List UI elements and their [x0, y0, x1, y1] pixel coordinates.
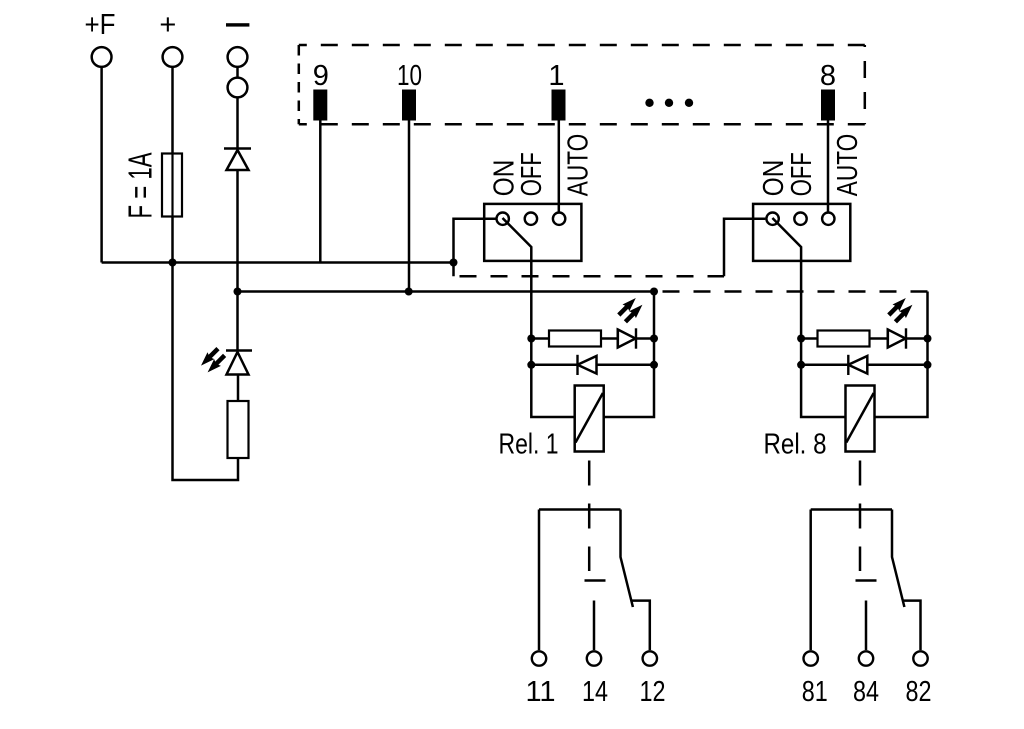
svg-text:1: 1	[548, 60, 564, 92]
rel1 contact 12 hook	[632, 601, 650, 651]
svg-text:Rel. 1: Rel. 1	[499, 429, 559, 461]
wire fuse to rail	[171, 217, 174, 263]
S1 OFF contact	[525, 213, 537, 225]
terminal − upper	[228, 47, 248, 67]
junction terminal10 rail2	[405, 288, 413, 296]
svg-text:10: 10	[397, 60, 422, 92]
terminal 82	[913, 651, 927, 665]
LED V2 arrows	[201, 347, 226, 372]
junction rail1 switch branch	[450, 259, 458, 267]
wire LED to resistor R1	[237, 375, 240, 402]
rel8 contact 81 wire	[809, 510, 812, 651]
rel1 contact 14 wire	[593, 601, 596, 651]
rel8 armature bar	[856, 579, 877, 582]
wire diode to rail2	[236, 170, 239, 292]
resistor R3	[801, 337, 817, 340]
top dashed connector box	[299, 44, 865, 47]
terminal − lower	[228, 78, 248, 98]
relay coil K8	[846, 386, 875, 452]
svg-text:11: 11	[525, 676, 555, 708]
wire 10 to rail2	[408, 121, 411, 292]
LED V5 arrows	[887, 298, 912, 323]
rel8 left branch wire	[801, 339, 845, 418]
rel1 contact top bar	[539, 508, 621, 511]
wire riser to S2	[724, 219, 765, 277]
terminal +	[163, 47, 183, 67]
svg-text:84: 84	[853, 676, 879, 708]
junction rel1 rail2	[650, 288, 658, 296]
rail1 from +F	[102, 261, 454, 264]
rel8 contact 82 hook	[903, 601, 921, 651]
rel1 node top-right	[650, 335, 658, 343]
rel8 contact top bar	[811, 508, 892, 511]
rel1 freewheel diode V4	[531, 364, 577, 367]
terminal pin 9	[313, 90, 327, 121]
rel1 node top-left	[527, 335, 535, 343]
svg-text:+F: +F	[85, 9, 116, 41]
terminal pin 10	[402, 90, 416, 121]
wire + branch down-left loop	[173, 263, 239, 481]
dashed rail1 continuation	[457, 275, 725, 278]
terminal pin 1	[552, 90, 566, 121]
terminal 81	[804, 651, 818, 665]
junction + rail1	[169, 259, 177, 267]
rel1 contact blade	[621, 510, 633, 608]
svg-text:14: 14	[582, 676, 608, 708]
svg-text:8: 8	[820, 60, 836, 92]
resistor R2	[531, 337, 549, 340]
svg-text:OFF: OFF	[786, 152, 818, 196]
rel8 node top-right	[924, 335, 932, 343]
wire 9 to rail1	[319, 121, 322, 263]
rel8 node mid-left	[797, 361, 805, 369]
rail2 from −	[238, 290, 655, 293]
svg-text:AUTO: AUTO	[832, 134, 864, 197]
rel1 node mid-right	[650, 361, 658, 369]
svg-text:82: 82	[906, 676, 932, 708]
fuse F1	[162, 154, 182, 217]
wire − to diode	[236, 98, 239, 149]
wire 1 to AUTO S1	[558, 121, 561, 212]
S2 lever	[772, 218, 801, 339]
rel1 actuator dashed link	[588, 452, 591, 572]
rel8 node top-left	[797, 335, 805, 343]
terminal 14	[587, 651, 601, 665]
rel8 right branch wire	[875, 292, 928, 418]
wire + to fuse	[171, 68, 174, 154]
junction − rail2	[234, 288, 242, 296]
svg-text:9: 9	[313, 60, 329, 92]
S2 OFF contact	[794, 213, 806, 225]
rel1 armature bar	[585, 579, 606, 582]
wire +F down	[100, 68, 103, 263]
S2 AUTO contact	[822, 213, 834, 225]
switch S2 box	[753, 204, 850, 261]
ellipsis dots	[645, 99, 693, 107]
svg-text:OFF: OFF	[516, 152, 548, 196]
rel1 node mid-left	[527, 361, 535, 369]
svg-text:AUTO: AUTO	[562, 134, 594, 197]
svg-text:F = 1A: F = 1A	[122, 153, 159, 219]
rel8 contact blade	[892, 510, 904, 608]
LED V2	[226, 349, 252, 351]
S1 lever	[503, 218, 532, 339]
label −	[226, 23, 249, 26]
terminal 11	[532, 651, 546, 665]
S1 AUTO contact	[553, 213, 565, 225]
LED V3 arrows	[617, 298, 642, 323]
rel8 actuator dashed link	[859, 452, 862, 572]
wire rail1 riser S1	[454, 219, 496, 277]
svg-text:+: +	[159, 9, 176, 41]
terminal +F	[92, 47, 112, 67]
switch S1 box	[484, 204, 581, 261]
wire rail2 to LED V2	[236, 292, 239, 351]
rel8 freewheel diode V6	[801, 364, 848, 367]
svg-text:Rel. 8: Rel. 8	[764, 429, 827, 461]
rel8 node mid-right	[924, 361, 932, 369]
LED V5	[887, 329, 890, 349]
dashed rail2 continuation	[654, 290, 928, 293]
wire 8 to AUTO S2	[827, 121, 830, 212]
diode V1	[224, 147, 251, 149]
relay coil K1	[575, 386, 604, 452]
S2 ON contact	[766, 213, 778, 225]
wire between − terminals	[236, 68, 239, 78]
svg-text:12: 12	[640, 676, 666, 708]
terminal 84	[859, 651, 873, 665]
rel1 left branch wire	[531, 339, 574, 418]
terminal pin 8	[821, 90, 835, 121]
svg-text:81: 81	[802, 676, 828, 708]
terminal 12	[643, 651, 657, 665]
S1 ON contact	[497, 213, 509, 225]
LED V3	[617, 329, 620, 349]
rel1 right branch wire	[604, 292, 654, 418]
rel1 contact 11 wire	[538, 510, 541, 651]
rel8 contact 84 wire	[865, 601, 868, 651]
resistor R1	[228, 401, 249, 458]
